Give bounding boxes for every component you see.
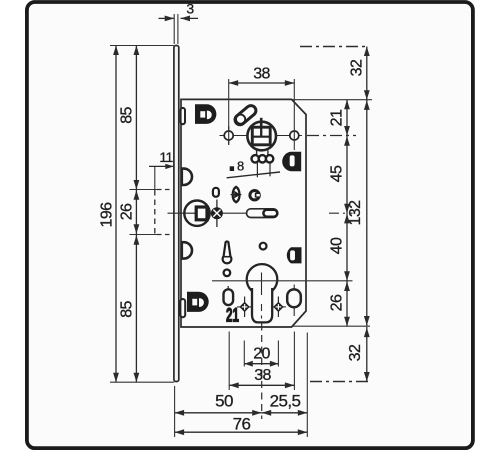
follower square hole 8mm — [252, 127, 270, 145]
dimension 50 — [174, 386, 176, 437]
svg-text:26: 26 — [329, 294, 346, 311]
cylinder fixing screw cross — [277, 297, 279, 318]
left vertical oval slot — [227, 286, 229, 291]
faceplate (3mm front plate) — [174, 46, 179, 382]
left fixing hole with cross — [228, 126, 230, 145]
svg-text:40: 40 — [329, 237, 346, 254]
edge tab lower — [180, 299, 185, 317]
svg-text:38: 38 — [253, 66, 270, 83]
horizontal capsule slot — [247, 209, 278, 218]
wc row horizontal centerline — [168, 212, 247, 214]
three small circles under follower — [256, 150, 258, 155]
small hole above cylinder — [260, 243, 267, 250]
dimension 26 right — [346, 281, 348, 326]
square symbol and 8 label — [230, 166, 234, 171]
svg-text:85: 85 — [119, 301, 136, 318]
dimension 3 faceplate thickness — [173, 14, 175, 44]
dimension 21 — [346, 100, 348, 136]
D-shaped stamping bottom-left — [187, 292, 209, 312]
dimension 76 — [175, 431, 308, 433]
svg-text:21: 21 — [329, 109, 346, 126]
svg-text:85: 85 — [119, 107, 136, 124]
edge tab upper — [181, 108, 185, 124]
slanted oval slot — [240, 111, 251, 120]
dark screw head with cross — [216, 200, 218, 228]
lock case body outline with chamfered right corners — [181, 99, 306, 327]
svg-text:21: 21 — [226, 305, 239, 326]
right vertical oval slot — [293, 285, 295, 317]
svg-text:32: 32 — [347, 344, 364, 361]
dimension 85 upper left — [135, 46, 137, 190]
dimension 85 lower left — [135, 235, 137, 383]
dimension 32 top right — [366, 47, 368, 100]
svg-text:76: 76 — [233, 415, 251, 434]
small ring part — [250, 191, 259, 200]
latch bump lower — [182, 242, 192, 258]
follower inner horizontal — [252, 136, 270, 138]
svg-text:132: 132 — [347, 200, 364, 226]
D-shaped stamping right of follower — [282, 152, 301, 171]
svg-text:196: 196 — [99, 202, 116, 228]
cylinder fixing screw cross — [244, 297, 246, 318]
svg-text:38: 38 — [254, 367, 271, 384]
dimension 38 top — [228, 79, 230, 144]
leader lines from circles — [256, 163, 258, 177]
svg-text:50: 50 — [215, 391, 233, 410]
dimension 132 — [366, 100, 368, 327]
svg-text:26: 26 — [119, 203, 136, 220]
svg-text:32: 32 — [349, 59, 366, 76]
hidden pocket dashed outline — [154, 190, 156, 235]
dimension 32 bottom right — [366, 327, 368, 382]
svg-text:8: 8 — [237, 159, 244, 174]
dimension 40 — [346, 213, 348, 281]
dimension 26 left — [130, 189, 158, 191]
wc square hole — [186, 212, 197, 214]
follower horizontal centerline — [220, 135, 303, 137]
center dashed axis — [261, 324, 263, 420]
latch bump upper — [182, 169, 192, 185]
dimension 11 — [154, 166, 156, 190]
D-shaped stamping right middle — [287, 247, 302, 263]
dimension 20 — [243, 341, 245, 367]
wc follower circle — [184, 201, 209, 226]
right fixing hole with cross — [290, 131, 299, 140]
spindle follower circle — [247, 122, 276, 151]
keyhole-shaped slot and hole — [223, 242, 232, 264]
small capsule above screw — [213, 188, 219, 197]
svg-text:45: 45 — [329, 165, 346, 182]
cam pointed oval part — [233, 187, 240, 202]
svg-text:25,5: 25,5 — [270, 391, 301, 410]
follower top tab line — [260, 118, 263, 127]
D-shaped stamping top-left — [195, 104, 216, 124]
cylinder vertical centerline cross — [261, 273, 263, 296]
follower inner vertical — [260, 127, 262, 137]
svg-text:3: 3 — [186, 1, 194, 17]
dimension 38 bottom — [228, 332, 230, 391]
dimension 196 left — [110, 45, 174, 47]
svg-text:20: 20 — [253, 346, 270, 363]
euro profile cylinder hole — [247, 264, 278, 295]
dimension 45 — [346, 136, 348, 214]
dimension 25,5 — [262, 412, 308, 414]
right extension lines — [292, 99, 372, 101]
svg-text:11: 11 — [159, 149, 173, 165]
